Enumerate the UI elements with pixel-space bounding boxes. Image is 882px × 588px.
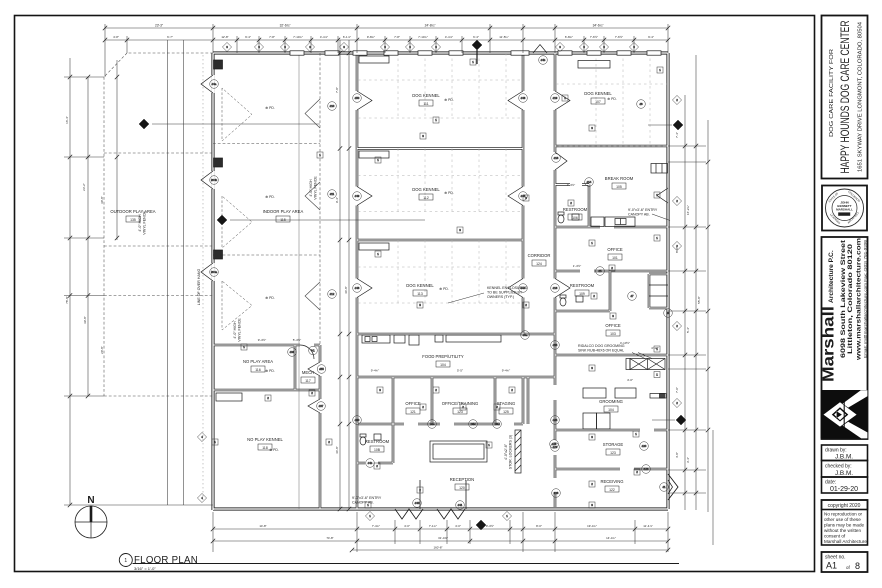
svg-text:other use of these: other use of these [824, 517, 861, 522]
svg-text:7'-10¾": 7'-10¾" [418, 35, 428, 39]
svg-text:d8: d8 [639, 102, 643, 106]
svg-text:3: 3 [459, 228, 461, 232]
svg-text:44'-8": 44'-8" [335, 446, 339, 454]
svg-text:2: 2 [676, 324, 678, 328]
svg-text:7'-1¾": 7'-1¾" [429, 524, 437, 528]
svg-text:101: 101 [612, 256, 618, 260]
svg-text:⊕ PD.: ⊕ PD. [444, 191, 453, 195]
svg-text:without the written: without the written [824, 528, 861, 533]
svg-text:9'-8¼": 9'-8¼" [367, 35, 375, 39]
svg-text:7'-8": 7'-8" [269, 35, 275, 39]
svg-text:104: 104 [440, 363, 446, 367]
svg-text:d16: d16 [553, 286, 558, 290]
svg-text:DOG CARE FACILITY FOR: DOG CARE FACILITY FOR [829, 49, 835, 137]
svg-text:34'-6¼": 34'-6¼" [593, 24, 604, 28]
svg-text:11'-4⅞": 11'-4⅞" [643, 524, 653, 528]
svg-text:8'-0": 8'-0" [536, 524, 542, 528]
svg-text:DOG KENNEL: DOG KENNEL [406, 283, 434, 288]
svg-text:9'-4¾": 9'-4¾" [502, 369, 510, 373]
svg-text:3: 3 [258, 45, 260, 49]
svg-text:122: 122 [609, 488, 615, 492]
svg-text:Marshall Architecture: Marshall Architecture [824, 539, 867, 544]
svg-text:1'-4½": 1'-4½" [573, 264, 581, 268]
svg-text:1: 1 [635, 432, 637, 436]
svg-text:OFFICE: OFFICE [405, 401, 421, 406]
svg-text:OFFICE: OFFICE [607, 247, 623, 252]
svg-text:9'-4": 9'-4" [648, 35, 654, 39]
svg-text:No reproduction or: No reproduction or [824, 512, 863, 517]
svg-text:7'-4": 7'-4" [675, 132, 679, 138]
svg-text:55'-8": 55'-8" [697, 296, 701, 304]
svg-text:4'-4⅞": 4'-4⅞" [320, 35, 328, 39]
svg-text:3: 3 [384, 45, 386, 49]
svg-text:3: 3 [226, 45, 228, 49]
svg-text:7'-6½": 7'-6½" [615, 35, 623, 39]
svg-text:4'-0": 4'-0" [404, 524, 410, 528]
svg-text:7'-6½": 7'-6½" [590, 35, 598, 39]
svg-text:2: 2 [422, 405, 424, 409]
svg-text:⊕ PD.: ⊕ PD. [265, 369, 274, 373]
svg-text:01-29-20: 01-29-20 [830, 486, 858, 493]
svg-text:3: 3 [559, 45, 561, 49]
svg-text:J.B.M.: J.B.M. [835, 454, 853, 461]
svg-text:9'-0"x3'-6" ENTRY: 9'-0"x3'-6" ENTRY [352, 496, 382, 500]
svg-text:1: 1 [319, 153, 321, 157]
svg-text:NO PLAY KENNEL: NO PLAY KENNEL [247, 437, 283, 442]
svg-text:4'-0" HIGH: 4'-0" HIGH [309, 179, 313, 197]
svg-text:24G: 24G [494, 422, 499, 426]
svg-text:7'-10¾": 7'-10¾" [293, 35, 303, 39]
svg-text:d46: d46 [521, 96, 526, 100]
svg-text:RIDALCO DOG GROOMING: RIDALCO DOG GROOMING [578, 344, 625, 348]
svg-text:19'-4¾": 19'-4¾" [587, 524, 597, 528]
svg-text:plans may be made: plans may be made [824, 523, 865, 528]
svg-text:106: 106 [572, 216, 578, 220]
svg-text:3: 3 [633, 45, 635, 49]
svg-text:116: 116 [255, 368, 261, 372]
svg-text:23'-2": 23'-2" [82, 183, 86, 191]
svg-text:160'-8": 160'-8" [434, 546, 443, 550]
svg-text:CORRIDOR: CORRIDOR [528, 253, 551, 258]
svg-text:44'-8": 44'-8" [344, 286, 348, 294]
svg-text:3: 3 [435, 45, 437, 49]
svg-text:d26: d26 [552, 442, 557, 446]
svg-text:FLOOR PLAN: FLOOR PLAN [134, 554, 198, 566]
svg-text:STORAGE: STORAGE [603, 442, 624, 447]
svg-text:1651 SKYWAY DRIVE LONGMONT, CO: 1651 SKYWAY DRIVE LONGMONT, COLORADO, 80… [858, 22, 864, 172]
svg-text:2: 2 [611, 266, 613, 270]
svg-text:HAPPY HOUNDS DOG CARE CENTER: HAPPY HOUNDS DOG CARE CENTER [840, 21, 852, 174]
svg-text:4'-0": 4'-0" [455, 524, 461, 528]
svg-text:DOG KENNEL: DOG KENNEL [412, 93, 440, 98]
svg-text:74'-8": 74'-8" [326, 536, 333, 540]
svg-text:107: 107 [595, 100, 601, 104]
svg-text:2: 2 [525, 303, 527, 307]
svg-text:6'-7": 6'-7" [167, 35, 173, 39]
svg-text:2: 2 [591, 482, 593, 486]
svg-text:d18: d18 [554, 156, 559, 160]
svg-text:39'-8": 39'-8" [83, 316, 87, 324]
svg-text:OUTDOOR PLAY AREA: OUTDOOR PLAY AREA [110, 209, 155, 214]
svg-text:3: 3 [422, 134, 424, 138]
svg-text:1: 1 [591, 241, 593, 245]
svg-text:J.B.M.: J.B.M. [835, 470, 853, 477]
svg-text:N: N [87, 495, 94, 506]
svg-text:d19: d19 [553, 96, 558, 100]
svg-text:7'-4½": 7'-4½" [567, 183, 575, 187]
svg-text:2: 2 [435, 388, 437, 392]
svg-text:16'-2¾": 16'-2¾" [686, 205, 690, 215]
svg-text:SINK RUB-46X6 OR EQUAL: SINK RUB-46X6 OR EQUAL [578, 349, 624, 353]
svg-text:9'-4½": 9'-4½" [486, 524, 494, 528]
svg-text:118: 118 [262, 446, 268, 450]
svg-text:VINYL FENCE: VINYL FENCE [314, 176, 318, 200]
svg-text:5'-4": 5'-4" [686, 327, 690, 333]
svg-text:2: 2 [676, 98, 678, 102]
svg-text:16'-4": 16'-4" [65, 116, 69, 124]
svg-text:8: 8 [855, 561, 860, 571]
svg-text:31'-4⅜": 31'-4⅜" [438, 536, 448, 540]
svg-text:109: 109 [579, 292, 585, 296]
svg-text:1: 1 [656, 373, 658, 377]
svg-text:⊕ PD.: ⊕ PD. [444, 98, 453, 102]
svg-text:9'-4½": 9'-4½" [258, 338, 266, 342]
svg-text:30'-8": 30'-8" [100, 196, 104, 204]
svg-text:1: 1 [472, 60, 474, 64]
svg-text:3: 3 [591, 503, 593, 507]
svg-text:V1: V1 [311, 349, 315, 353]
svg-text:24'-8¼": 24'-8¼" [425, 24, 436, 28]
svg-text:d4b: d4b [368, 461, 373, 465]
svg-text:3: 3 [284, 45, 286, 49]
svg-text:3: 3 [612, 314, 614, 318]
svg-text:123: 123 [457, 410, 463, 414]
svg-text:4'-4⅞": 4'-4⅞" [445, 35, 453, 39]
svg-text:9'-4¾": 9'-4¾" [371, 369, 379, 373]
svg-text:1: 1 [435, 118, 437, 122]
svg-text:1: 1 [377, 252, 379, 256]
svg-text:CANOPY AB.: CANOPY AB. [352, 501, 374, 505]
svg-text:RESTROOM: RESTROOM [365, 439, 390, 444]
svg-text:1: 1 [377, 158, 379, 162]
svg-text:6'-1⅞": 6'-1⅞" [343, 35, 351, 39]
svg-text:RECEPTION: RECEPTION [450, 477, 474, 482]
svg-text:LINE OF OVER HANG: LINE OF OVER HANG [197, 269, 201, 306]
svg-text:2: 2 [419, 488, 421, 492]
svg-text:⊕ PD.: ⊕ PD. [439, 287, 448, 291]
svg-text:d5: d5 [598, 269, 602, 273]
svg-text:OFFICE: OFFICE [605, 323, 621, 328]
svg-text:d40: d40 [415, 501, 420, 505]
svg-text:2: 2 [676, 199, 678, 203]
svg-text:1: 1 [506, 514, 508, 518]
svg-text:2: 2 [328, 440, 330, 444]
svg-text:GROOMING: GROOMING [599, 399, 623, 404]
svg-text:1: 1 [214, 440, 216, 444]
svg-text:⊕ PD.: ⊕ PD. [607, 97, 616, 101]
svg-text:⊕ PD.: ⊕ PD. [269, 448, 278, 452]
svg-text:24F: 24F [430, 422, 435, 426]
svg-text:d37: d37 [319, 404, 324, 408]
svg-text:MECH: MECH [302, 370, 314, 375]
svg-text:124: 124 [536, 262, 542, 266]
svg-text:4'-0"x2'-6": 4'-0"x2'-6" [504, 443, 508, 460]
svg-text:copyright 2020: copyright 2020 [828, 503, 861, 509]
svg-text:204b: 204b [211, 178, 218, 182]
svg-text:OWNERS (TYP.): OWNERS (TYP.) [487, 295, 514, 299]
svg-text:d15: d15 [553, 343, 558, 347]
svg-text:3: 3 [583, 45, 585, 49]
svg-text:113: 113 [417, 292, 423, 296]
svg-text:2: 2 [511, 388, 513, 392]
svg-text:⊕ PD.: ⊕ PD. [265, 195, 274, 199]
svg-text:Architecture P.C.: Architecture P.C. [828, 250, 835, 303]
svg-text:3: 3 [603, 45, 605, 49]
svg-text:9'-0"x3'-6" ENTRY: 9'-0"x3'-6" ENTRY [628, 208, 658, 212]
svg-text:14'-8": 14'-8" [259, 524, 266, 528]
svg-text:⊕ PD.: ⊕ PD. [265, 296, 274, 300]
svg-text:STOR. LOCKERS (3): STOR. LOCKERS (3) [509, 435, 513, 469]
svg-text:d3a: d3a [523, 333, 528, 337]
svg-text:NO PLAY AREA: NO PLAY AREA [243, 359, 273, 364]
svg-text:d10: d10 [330, 104, 335, 108]
svg-text:d49: d49 [355, 194, 360, 198]
svg-text:1: 1 [659, 68, 661, 72]
svg-text:111: 111 [423, 102, 428, 106]
svg-text:3/16" = 1'-0": 3/16" = 1'-0" [134, 566, 156, 571]
svg-text:⊕ PD.: ⊕ PD. [265, 106, 274, 110]
svg-text:7'-4¾": 7'-4¾" [372, 524, 380, 528]
svg-text:11'-5¼": 11'-5¼" [499, 35, 509, 39]
svg-text:d14: d14 [587, 180, 592, 184]
svg-text:3: 3 [343, 45, 345, 49]
svg-text:12'-8": 12'-8" [221, 35, 228, 39]
svg-text:d9: d9 [666, 311, 670, 315]
svg-text:4'-8": 4'-8" [113, 35, 119, 39]
svg-text:d24: d24 [553, 418, 558, 422]
svg-text:of: of [846, 565, 851, 570]
svg-text:20'-8": 20'-8" [100, 346, 104, 354]
svg-text:d36: d36 [290, 350, 295, 354]
svg-text:BREAK ROOM: BREAK ROOM [605, 176, 634, 181]
svg-text:DOG KENNEL: DOG KENNEL [584, 91, 612, 96]
svg-text:135: 135 [130, 218, 136, 222]
svg-text:7'-8": 7'-8" [394, 35, 400, 39]
svg-text:INDOOR PLAY AREA: INDOOR PLAY AREA [263, 209, 304, 214]
svg-text:6'-4": 6'-4" [473, 35, 479, 39]
svg-text:3'-4": 3'-4" [686, 457, 690, 463]
svg-text:consent of: consent of [824, 534, 846, 539]
svg-text:3: 3 [409, 45, 411, 49]
svg-text:6'-8¼": 6'-8¼" [565, 35, 573, 39]
svg-text:d41: d41 [458, 503, 463, 507]
svg-text:d30: d30 [355, 418, 360, 422]
svg-text:2: 2 [570, 201, 572, 205]
svg-text:VINYL FENCE: VINYL FENCE [143, 211, 147, 235]
svg-text:4'-0" HIGH: 4'-0" HIGH [138, 214, 142, 232]
svg-text:checked by:: checked by: [825, 464, 852, 470]
svg-text:2: 2 [267, 396, 269, 400]
svg-text:402658: 402658 [840, 212, 850, 216]
svg-text:d28: d28 [554, 491, 559, 495]
svg-text:d7: d7 [630, 294, 634, 298]
svg-text:STAGING: STAGING [497, 401, 516, 406]
svg-text:Littleton, Colorado 80120: Littleton, Colorado 80120 [847, 244, 854, 354]
svg-text:125: 125 [503, 410, 509, 414]
svg-text:d50: d50 [355, 96, 360, 100]
svg-text:204a: 204a [211, 270, 218, 274]
svg-text:121: 121 [410, 410, 416, 414]
svg-text:2: 2 [636, 470, 638, 474]
svg-text:112: 112 [423, 196, 429, 200]
svg-text:1: 1 [656, 236, 658, 240]
svg-text:2: 2 [676, 401, 678, 405]
svg-text:104: 104 [608, 408, 614, 412]
svg-text:DOG KENNEL: DOG KENNEL [412, 187, 440, 192]
svg-text:7'-8": 7'-8" [335, 87, 339, 93]
svg-text:1: 1 [369, 514, 371, 518]
svg-text:7'-0": 7'-0" [675, 387, 679, 393]
svg-text:117: 117 [305, 379, 311, 383]
svg-text:d11: d11 [330, 192, 335, 196]
svg-text:105: 105 [616, 185, 622, 189]
svg-text:123: 123 [610, 451, 616, 455]
svg-text:3: 3 [591, 366, 593, 370]
svg-text:date:: date: [825, 480, 836, 486]
svg-text:www.marshallarchitecture.com: www.marshallarchitecture.com [856, 238, 863, 361]
svg-text:10B: 10B [374, 448, 381, 452]
svg-text:23'-3": 23'-3" [155, 24, 163, 28]
svg-text:103: 103 [610, 332, 616, 336]
svg-text:5'-4½": 5'-4½" [293, 338, 301, 342]
svg-text:Email: jm@marshallarchitecture: Email: jm@marshallarchitecture.com Fax: … [863, 240, 867, 358]
svg-text:MARSHALL: MARSHALL [836, 208, 853, 212]
svg-text:d12: d12 [330, 292, 335, 296]
svg-text:9'-4": 9'-4" [245, 35, 251, 39]
svg-text:d44: d44 [521, 286, 526, 290]
svg-text:1: 1 [124, 558, 127, 564]
svg-text:24H: 24H [470, 422, 475, 426]
svg-text:TO BE SUPPLIED BY: TO BE SUPPLIED BY [487, 291, 523, 295]
svg-text:RESTROOM: RESTROOM [570, 283, 595, 288]
svg-text:3: 3 [591, 435, 593, 439]
svg-text:d4b: d4b [541, 58, 546, 62]
svg-text:RECEIVING: RECEIVING [600, 479, 623, 484]
svg-text:RESTROOM: RESTROOM [563, 207, 588, 212]
svg-text:120: 120 [459, 486, 465, 490]
svg-text:d4a: d4a [212, 82, 217, 86]
svg-text:4'-0" HIGH: 4'-0" HIGH [233, 321, 237, 339]
svg-text:2: 2 [311, 391, 313, 395]
svg-text:32'-6¾": 32'-6¾" [280, 24, 291, 28]
svg-text:d2b: d2b [644, 467, 649, 471]
svg-text:d20: d20 [642, 444, 647, 448]
svg-text:1: 1 [488, 443, 490, 447]
svg-text:3: 3 [419, 303, 421, 307]
svg-text:14'-4¾": 14'-4¾" [606, 536, 616, 540]
svg-text:9'-4": 9'-4" [335, 197, 339, 203]
svg-text:4'-8": 4'-8" [675, 452, 679, 458]
svg-text:3: 3 [591, 126, 593, 130]
svg-text:d48: d48 [355, 286, 360, 290]
svg-text:CANOPY AB.: CANOPY AB. [628, 213, 650, 217]
svg-text:d1: d1 [662, 485, 666, 489]
svg-text:A1: A1 [826, 561, 837, 571]
svg-text:5'-5": 5'-5" [457, 369, 463, 373]
svg-text:4'-0": 4'-0" [627, 378, 633, 382]
svg-text:d55: d55 [319, 367, 324, 371]
svg-text:3: 3 [379, 388, 381, 392]
svg-text:VINYL FENCE: VINYL FENCE [238, 318, 242, 342]
svg-text:Marshall: Marshall [821, 306, 838, 382]
svg-text:2: 2 [593, 294, 595, 298]
svg-text:FOOD PREP/UTILITY: FOOD PREP/UTILITY [422, 354, 464, 359]
svg-text:2: 2 [376, 464, 378, 468]
